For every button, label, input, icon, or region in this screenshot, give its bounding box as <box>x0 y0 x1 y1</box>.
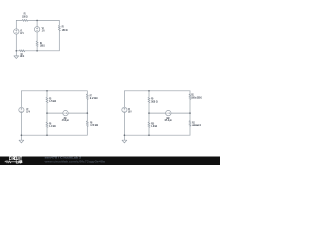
ground BR <box>122 140 127 143</box>
wire bottom edge <box>21 134 87 136</box>
wire ground stem TL <box>15 51 17 56</box>
node BL ground corner <box>21 134 23 136</box>
wire middle branch lower <box>36 47 38 51</box>
wire top edge <box>124 90 190 92</box>
node BR ground corner <box>124 134 126 136</box>
wire middle branch bottom <box>46 128 48 136</box>
ground TL <box>14 56 19 59</box>
node BL top-mid <box>46 90 48 92</box>
resistor R10 <box>148 122 150 128</box>
wire bottom edge <box>124 134 190 136</box>
wire right edge top stub <box>189 91 191 94</box>
resistor R12 <box>189 121 191 127</box>
node BL mid-right <box>87 112 89 114</box>
wire right edge top stub <box>86 91 88 94</box>
resistor R5 <box>46 97 48 103</box>
wire left edge lower <box>15 34 17 51</box>
voltage source V4 <box>122 107 127 112</box>
node BL mid-left <box>46 112 48 114</box>
resistor R7 <box>86 94 88 100</box>
wire left edge lower <box>20 113 22 136</box>
wire middle branch mid <box>46 103 48 122</box>
wire middle branch top stub <box>148 91 150 98</box>
voltage source V2 <box>34 27 39 32</box>
credit URL line 2 <box>45 159 106 163</box>
wire mid bridge left <box>47 112 63 114</box>
ammeter AM2 <box>166 110 171 115</box>
wire middle branch mid <box>148 103 150 122</box>
wire left edge upper <box>20 91 22 108</box>
wire middle branch bottom <box>148 128 150 136</box>
node TL top-mid <box>36 20 38 22</box>
ammeter AM1 <box>63 110 68 115</box>
resistor R2 <box>36 41 38 47</box>
wire right edge upper <box>58 20 60 25</box>
resistor R4 <box>19 50 24 52</box>
resistor R6 <box>46 122 48 128</box>
wire right edge mid <box>86 99 88 121</box>
node TL bottom-mid <box>36 50 38 52</box>
wire mid bridge left <box>149 112 166 114</box>
wire bottom edge left stub <box>16 50 19 52</box>
wire ground stem BR <box>123 135 125 140</box>
node BR mid-right <box>189 112 191 114</box>
wire left edge upper <box>123 91 125 107</box>
ground BL <box>19 140 24 143</box>
voltage source V1 <box>14 29 19 34</box>
wire top edge left segment <box>16 19 22 21</box>
credit line 1 <box>45 156 82 160</box>
wire right edge bottom <box>189 126 191 135</box>
wire right edge mid <box>189 99 191 120</box>
wire ground stem BL <box>20 135 22 140</box>
voltage source V3 <box>19 107 24 112</box>
wire bottom edge right segment <box>25 50 59 52</box>
wire middle branch mid <box>36 32 38 41</box>
node BR mid-left <box>148 112 150 114</box>
node BL bottom-mid <box>46 134 48 136</box>
node TL ground corner <box>15 50 17 52</box>
wire mid bridge right <box>68 112 87 114</box>
wire right edge lower <box>58 31 60 51</box>
resistor R9 <box>148 97 150 103</box>
wire top edge right segment <box>28 19 60 21</box>
CircuitLab logo <box>9 157 22 163</box>
resistor R11 <box>189 94 191 100</box>
wire mid bridge right <box>171 112 190 114</box>
resistor R3 <box>58 25 60 30</box>
wire left edge upper <box>15 20 17 28</box>
wire middle branch top stub <box>46 91 48 98</box>
wire left edge lower <box>123 112 125 135</box>
node BR bottom-mid <box>148 134 150 136</box>
resistor R8 <box>86 121 88 127</box>
bottom bar <box>0 157 220 166</box>
wire right edge bottom <box>86 126 88 135</box>
node BR top-mid <box>148 90 150 92</box>
wire middle branch upper <box>36 20 38 26</box>
wire top edge <box>21 90 87 92</box>
logo resistor zigzag <box>5 161 20 163</box>
resistor R1 <box>22 19 27 21</box>
